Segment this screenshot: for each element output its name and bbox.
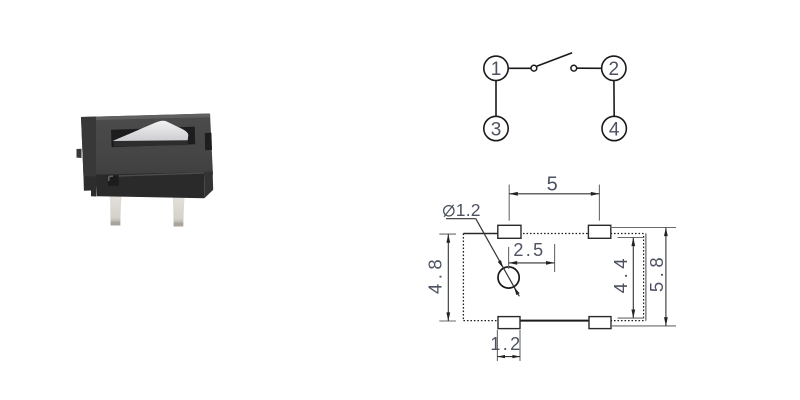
left side face darker xyxy=(81,117,96,177)
svg-text:2: 2 xyxy=(609,59,620,80)
body outline bottom edge solid segment xyxy=(520,320,590,322)
dim 2.5 extension line left xyxy=(508,247,510,269)
right top recess xyxy=(205,133,212,151)
left pin tip shade xyxy=(111,222,121,226)
dim 1.2 extension line left xyxy=(496,330,498,361)
svg-text:1.2: 1.2 xyxy=(490,334,522,354)
body outline bottom edge hidden right segment xyxy=(611,320,646,322)
boss highlight xyxy=(108,175,113,181)
left pin terminal xyxy=(109,194,122,226)
pin 3 node circle xyxy=(484,116,508,140)
front face xyxy=(96,172,204,198)
dim 2.5 extension line right xyxy=(554,244,556,272)
dim 1.2 dimension line xyxy=(497,356,520,358)
svg-text:3: 3 xyxy=(491,119,502,140)
slot lower shadow xyxy=(114,140,188,146)
dim 5.8 arrow bottom xyxy=(664,317,668,326)
dim 5.8 extension line bottom xyxy=(610,325,676,327)
dim 1.2 arrow right xyxy=(512,355,520,358)
circuit schematic: switch contact arrangement xyxy=(484,53,627,141)
right side sliver xyxy=(204,171,213,198)
hole diameter arrow lower xyxy=(514,287,520,295)
switch body top block xyxy=(81,114,213,178)
dim 2.5 arrow left xyxy=(509,261,518,265)
actuator slot xyxy=(111,127,195,148)
dim 4.8 arrow bottom xyxy=(446,312,450,321)
pin 4 node circle xyxy=(602,116,626,140)
mounting hole circle xyxy=(498,267,519,288)
hole diameter arrow upper xyxy=(498,260,504,268)
dim 4.8 dimension line xyxy=(447,234,449,321)
dim 4.4 extension line bottom xyxy=(618,317,645,319)
svg-text:1: 1 xyxy=(491,59,502,80)
dim 2.5 arrow right xyxy=(546,261,555,265)
hole leader diagonal xyxy=(476,219,520,297)
dim 4.8 arrow top xyxy=(446,234,450,243)
wire movable contact to pin2 xyxy=(577,67,602,69)
pad bottom-right xyxy=(589,317,611,329)
front face top groove highlight xyxy=(109,172,204,177)
switch photo: detector switch body xyxy=(77,114,214,227)
right pin terminal xyxy=(172,195,185,227)
left side tab xyxy=(77,149,82,158)
dim 4.8 extension line top xyxy=(439,233,456,235)
body outline top edge solid segment xyxy=(463,233,498,235)
dim 4.4 arrow bottom xyxy=(631,310,635,319)
dim 4.4 arrow top xyxy=(631,238,635,247)
dim 1.2 extension line right xyxy=(519,330,521,361)
dim 5 extension line left xyxy=(508,185,510,221)
svg-text:2.5: 2.5 xyxy=(513,240,545,260)
contact circle right xyxy=(571,65,577,71)
body outline left edge hidden xyxy=(462,234,464,321)
dim 5 extension line right xyxy=(598,185,600,221)
svg-text:4.8: 4.8 xyxy=(425,255,446,294)
wire pin1 to pin3 xyxy=(495,81,497,117)
svg-text:1.2: 1.2 xyxy=(456,200,481,220)
svg-text:4.4: 4.4 xyxy=(610,254,631,293)
dim 1.2 arrow left xyxy=(497,355,505,358)
dim 5 dimension line xyxy=(509,193,599,195)
dim 5.8 dimension line xyxy=(665,228,667,326)
svg-text:4: 4 xyxy=(609,119,620,140)
diameter symbol slash xyxy=(444,205,454,217)
pin 1 node circle xyxy=(484,56,508,80)
body top rim highlight xyxy=(81,114,210,121)
svg-text:5.8: 5.8 xyxy=(646,253,667,292)
dim 4.4 extension line top xyxy=(618,237,645,239)
pin 2 node circle xyxy=(602,56,626,80)
body outline bottom edge hidden left segment xyxy=(463,320,498,322)
pad top-right xyxy=(588,225,610,238)
contact circle left xyxy=(531,65,537,71)
body outline top edge hidden segment xyxy=(520,233,646,235)
dim 5.8 extension line top xyxy=(610,227,676,229)
dimension drawing: PCB land pattern xyxy=(439,185,676,361)
dim 4.4 dimension line xyxy=(632,238,634,319)
pad bottom-left xyxy=(498,317,520,329)
dim 4.8 extension line bottom xyxy=(439,320,456,322)
dim 5.8 arrow top xyxy=(664,228,668,237)
dim 2.5 dimension line xyxy=(509,262,555,264)
switch lever arm xyxy=(537,53,573,67)
dim 5 arrow left xyxy=(509,192,518,196)
svg-text:5: 5 xyxy=(547,174,561,196)
diameter symbol circle xyxy=(444,206,454,216)
body outline right edge solid xyxy=(645,234,647,321)
wire pin1 to movable contact xyxy=(508,67,531,69)
wire pin2 to pin4 xyxy=(613,81,615,117)
dim 5 arrow right xyxy=(591,192,600,196)
left lower column with notch xyxy=(84,176,97,196)
cover right edge hidden xyxy=(643,236,645,318)
pad top-left xyxy=(498,225,521,238)
hole leader line xyxy=(446,218,476,220)
front locating boss xyxy=(108,175,119,186)
right pin tip shade xyxy=(174,223,184,227)
white actuator lever xyxy=(113,121,188,141)
